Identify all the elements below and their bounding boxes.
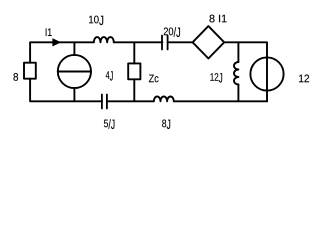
- wire top-left corner and top-left segment: [30, 42, 94, 62]
- label 12: [299, 75, 309, 83]
- wire stub top of current source: [73, 42, 75, 55]
- wire left-bottom segment and bottom-left corner: [30, 79, 102, 102]
- resistor Zc (impedance box): [128, 63, 140, 79]
- label 8: [13, 73, 18, 81]
- wire bottom-right segment: [174, 100, 267, 102]
- label 12J: [210, 73, 222, 82]
- wire capacitor to diamond: [168, 41, 193, 43]
- wire junction down to 12J branch: [237, 42, 239, 62]
- label 8 I1: [209, 15, 226, 23]
- inductor 8J: [154, 96, 174, 101]
- label 5/J: [104, 119, 115, 129]
- wire top middle segment: [114, 41, 163, 43]
- label 8J: [162, 120, 170, 129]
- capacitor 5/J: [102, 95, 107, 109]
- label Zc: [149, 75, 159, 83]
- capacitor 20/J: [162, 36, 168, 50]
- voltage source 12 (circle): [250, 57, 283, 90]
- arrow I1 on top wire: [53, 39, 60, 46]
- dependent source 8 I1 (diamond CCVS): [193, 26, 225, 58]
- wire 12J branch bottom: [237, 85, 239, 102]
- label 20/J: [164, 27, 180, 37]
- wire stub bottom of current source: [73, 88, 75, 101]
- label 4J: [106, 71, 113, 80]
- inductor 10J: [94, 37, 114, 42]
- label 10J: [89, 16, 103, 25]
- wire junction down to Zc branch: [133, 42, 135, 63]
- inductor 12J: [234, 62, 238, 85]
- wire diamond to top-right corner and down into source: [224, 42, 267, 101]
- wire Zc branch bottom: [133, 79, 135, 101]
- label I1: [46, 28, 52, 36]
- wire bottom middle segment: [107, 100, 154, 102]
- resistor 8: [24, 63, 36, 79]
- current source 4J (circle with bar): [58, 55, 91, 88]
